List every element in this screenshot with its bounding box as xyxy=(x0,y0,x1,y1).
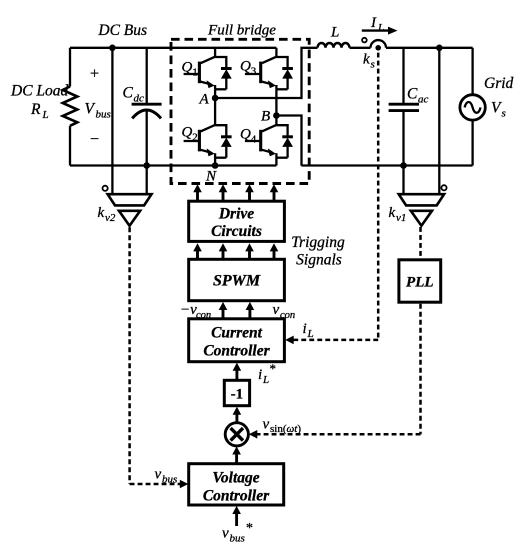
sensor k_v2 (DC bus voltage transducer) xyxy=(108,194,152,226)
node: junction bottom rail / C_dc xyxy=(143,162,150,169)
svg-text:Q: Q xyxy=(240,59,251,75)
svg-text:Current: Current xyxy=(211,325,263,342)
transistor Q1 (IGBT) xyxy=(184,48,216,90)
svg-text:A: A xyxy=(199,92,210,108)
sensor k_s (current transducer) xyxy=(371,40,387,48)
block -1 xyxy=(224,380,249,405)
svg-text:Q: Q xyxy=(182,125,193,141)
svg-text:Q: Q xyxy=(240,127,251,143)
label v_bus xyxy=(155,467,178,486)
svg-text:DC Load: DC Load xyxy=(10,83,69,100)
wire: grid return bottom rail xyxy=(302,164,473,166)
svg-text:Controller: Controller xyxy=(203,343,270,360)
label Full bridge xyxy=(207,23,276,39)
svg-text:Q: Q xyxy=(182,60,193,76)
svg-text:I: I xyxy=(370,15,377,31)
arrows: SPWM to drive circuits xyxy=(196,250,199,259)
node A xyxy=(212,95,219,102)
wire: current sensor to grid branch xyxy=(386,47,473,49)
label i_L xyxy=(303,321,314,340)
svg-text:Grid: Grid xyxy=(484,75,514,92)
diode D1 (antiparallel of Q1) xyxy=(215,57,232,89)
label k_s xyxy=(363,52,375,71)
label i_L* xyxy=(258,361,276,386)
svg-text:N: N xyxy=(205,169,217,185)
label N xyxy=(205,169,217,185)
capacitor C_ac xyxy=(402,48,404,166)
svg-text:C: C xyxy=(407,86,418,103)
svg-text:Voltage: Voltage xyxy=(212,470,259,487)
svg-text:v: v xyxy=(273,302,280,318)
svg-text:con: con xyxy=(196,310,211,321)
multiplier (X in circle) xyxy=(225,423,248,446)
svg-text:bus: bus xyxy=(230,533,245,545)
AC source V_s (grid) xyxy=(460,95,485,120)
svg-text:L: L xyxy=(42,109,49,121)
svg-text:B: B xyxy=(261,109,270,125)
label Grid xyxy=(484,75,514,92)
diode D4 (antiparallel of Q4) xyxy=(276,125,293,158)
label Q2 xyxy=(182,125,198,144)
arrow: -1 to current controller xyxy=(235,369,238,380)
svg-text:−: − xyxy=(90,131,99,148)
label V_bus xyxy=(85,101,111,121)
arrow: v_bus* input to voltage controller xyxy=(235,513,238,527)
svg-text:L: L xyxy=(330,25,339,41)
label DC Bus xyxy=(97,22,147,39)
svg-text:+: + xyxy=(90,66,99,83)
svg-text:C: C xyxy=(123,85,134,102)
svg-text:v1: v1 xyxy=(396,212,406,224)
label + xyxy=(90,66,99,83)
svg-text:L: L xyxy=(307,328,314,340)
label v_con xyxy=(273,302,296,321)
svg-text:Controller: Controller xyxy=(203,488,270,505)
svg-text:Circuits: Circuits xyxy=(211,223,262,240)
svg-text:k: k xyxy=(363,52,370,68)
label L xyxy=(330,25,339,41)
dashed line: i_L feedback from k_s to current controller xyxy=(293,53,379,340)
svg-text:Trigging: Trigging xyxy=(291,234,345,251)
svg-text:−v: −v xyxy=(180,302,197,318)
capacitor C_dc xyxy=(146,48,148,194)
node: junction top rail / k_v1 tap xyxy=(436,45,443,52)
transistor Q3 (IGBT) xyxy=(245,48,277,90)
svg-text:*: * xyxy=(270,361,277,376)
block Drive Circuits xyxy=(189,201,285,241)
wire: left leg of DC load xyxy=(69,48,71,166)
svg-text:3: 3 xyxy=(251,66,257,78)
svg-text:s: s xyxy=(371,59,375,71)
svg-text:Drive: Drive xyxy=(218,206,254,223)
arrows: current controller to SPWM xyxy=(222,309,225,319)
arrow I_L xyxy=(362,29,389,31)
svg-text:PLL: PLL xyxy=(406,275,434,291)
label k_v1 xyxy=(389,205,407,224)
transistor Q2 (IGBT) xyxy=(184,125,216,166)
wire: k_v1 taps xyxy=(404,48,440,194)
label C_ac xyxy=(407,86,429,106)
block SPWM xyxy=(189,259,285,300)
svg-text:con: con xyxy=(280,310,295,321)
label A xyxy=(199,92,210,108)
svg-text:Full bridge: Full bridge xyxy=(207,23,276,39)
label DC Load xyxy=(10,83,69,100)
svg-text:dc: dc xyxy=(134,93,145,105)
node: junction bottom rail / C_ac / k_v1 tap xyxy=(400,162,407,169)
svg-text:v: v xyxy=(263,417,270,433)
block Voltage Controller xyxy=(189,464,284,505)
svg-text:k: k xyxy=(98,205,105,221)
label -v_con xyxy=(180,302,211,321)
node: junction top rail / V_bus wire xyxy=(109,45,116,52)
full bridge dashed enclosure xyxy=(171,39,309,183)
label R_L xyxy=(30,101,49,121)
sensor k_v1 (grid voltage transducer) xyxy=(399,194,444,226)
svg-text:Signals: Signals xyxy=(296,252,342,269)
diode D2 (antiparallel of Q2) xyxy=(215,125,232,158)
svg-text:s: s xyxy=(502,108,506,120)
block Current Controller xyxy=(189,319,285,362)
node N xyxy=(212,162,219,169)
arrows: drive circuits to bridge xyxy=(196,191,199,201)
svg-text:i: i xyxy=(258,367,262,383)
label k_v2 xyxy=(98,205,116,224)
resistor R_L xyxy=(63,87,78,126)
svg-text:V: V xyxy=(491,100,502,117)
label v_sin(wt) xyxy=(263,417,302,435)
svg-text:1: 1 xyxy=(192,67,198,79)
transistor Q4 (IGBT) xyxy=(245,125,277,166)
svg-text:i: i xyxy=(303,321,307,337)
label Q3 xyxy=(240,59,257,78)
label C_dc xyxy=(123,85,145,105)
node B xyxy=(273,112,280,119)
label Q1 xyxy=(182,60,198,79)
label V_s xyxy=(491,100,506,120)
wire: DC bus top rail xyxy=(70,47,276,49)
wire: right leg between joint and Q4 xyxy=(275,89,277,125)
svg-text:bus: bus xyxy=(162,474,177,486)
wire: left leg between node A and Q2 xyxy=(214,89,216,125)
svg-text:V: V xyxy=(85,101,96,118)
label I_L xyxy=(370,15,384,34)
dashed line: PLL v_sin to multiplier xyxy=(256,304,421,435)
svg-text:sin(ωt): sin(ωt) xyxy=(270,423,301,435)
svg-text:R: R xyxy=(30,101,41,118)
label B xyxy=(261,109,270,125)
arrow: multiplier to -1 xyxy=(235,413,238,423)
wire: inductor to current sensor xyxy=(350,47,371,49)
wire: DC bus bottom rail xyxy=(70,164,276,166)
label Q4 xyxy=(240,127,257,146)
svg-text:*: * xyxy=(246,521,253,536)
dashed line: k_v1 to PLL xyxy=(419,227,422,258)
wire: grid branch vertical xyxy=(471,48,473,166)
svg-text:L: L xyxy=(262,374,269,386)
block PLL xyxy=(399,260,441,302)
svg-text:v: v xyxy=(155,467,162,483)
svg-text:2: 2 xyxy=(192,132,198,144)
wire: V_bus sense wire xyxy=(111,48,113,194)
svg-text:v2: v2 xyxy=(105,212,116,224)
arrow: voltage controller to multiplier xyxy=(235,453,238,464)
svg-text:SPWM: SPWM xyxy=(213,273,261,290)
diode D3 (antiparallel of Q3) xyxy=(276,57,293,89)
svg-text:L: L xyxy=(377,22,384,34)
svg-text:bus: bus xyxy=(96,109,111,121)
svg-text:k: k xyxy=(389,205,396,221)
label v_bus* xyxy=(222,521,253,545)
wire: node B output down to grid return rail xyxy=(276,116,301,166)
svg-text:v: v xyxy=(222,526,229,542)
svg-text:-1: -1 xyxy=(231,387,244,403)
wire: node A output to inductor xyxy=(215,48,317,98)
svg-text:ac: ac xyxy=(418,94,429,106)
svg-text:4: 4 xyxy=(251,134,257,146)
dashed line: k_v2 v_bus to voltage controller xyxy=(130,227,180,484)
svg-text:DC Bus: DC Bus xyxy=(97,22,147,39)
label − xyxy=(90,131,99,148)
label Trigging Signals xyxy=(291,234,345,269)
inductor L xyxy=(318,43,350,48)
